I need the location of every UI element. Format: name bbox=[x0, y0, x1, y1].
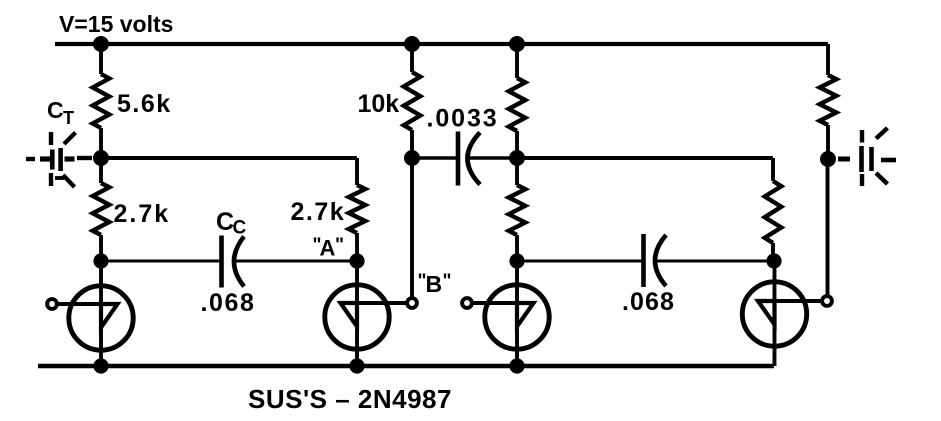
wire mid-right horizontal bbox=[517, 156, 773, 160]
wire C068b to node anode SUS4 bbox=[657, 260, 774, 263]
resistor R1 5.6k bbox=[93, 74, 110, 128]
wire node to R6 bbox=[515, 158, 519, 185]
svg-text:V=15 volts: V=15 volts bbox=[59, 11, 173, 37]
wire top rail corner down to R8 bbox=[826, 44, 830, 75]
wire R6 to anode SUS3 bbox=[515, 235, 519, 261]
svg-text:SUS'S – 2N4987: SUS'S – 2N4987 bbox=[248, 384, 452, 414]
svg-text:C: C bbox=[233, 218, 247, 239]
resistor R8 bbox=[820, 75, 837, 125]
resistor R5 bbox=[509, 78, 526, 131]
wire CC to node A bbox=[236, 260, 357, 263]
wire V+ to R5 bbox=[515, 44, 519, 78]
svg-text:C: C bbox=[216, 208, 234, 236]
wire C0033 to node R5 bbox=[469, 156, 517, 159]
resistor R6 bbox=[509, 185, 526, 235]
SUS U1 2N4987 bbox=[99, 261, 103, 366]
wire bottom ground rail bbox=[38, 364, 774, 369]
node B top bbox=[404, 150, 420, 166]
SUS U3 2N4987 bbox=[515, 261, 519, 366]
resistor R3 2.7k bbox=[349, 185, 366, 233]
capacitor CT (dashed, external) bbox=[26, 157, 35, 161]
node CT junction bbox=[93, 150, 109, 166]
resistor R2 2.7k bbox=[93, 183, 110, 235]
svg-text:B: B bbox=[426, 271, 443, 297]
node ground SUS1 bbox=[93, 358, 108, 373]
node mid right bbox=[509, 150, 525, 166]
node top rail at R4 bbox=[404, 36, 420, 52]
node anode SUS1 bbox=[93, 253, 108, 268]
capacitor C4 .068 bbox=[641, 234, 646, 287]
wire corner down to R3 bbox=[355, 158, 359, 185]
node top rail at R5 bbox=[509, 36, 525, 52]
wire R1 to node CT bbox=[99, 128, 103, 158]
resistor R4 10k bbox=[404, 72, 421, 130]
wire V+ to R4 bbox=[410, 44, 414, 72]
svg-text:T: T bbox=[63, 108, 74, 128]
svg-text:C: C bbox=[47, 97, 64, 123]
svg-text:2.7k: 2.7k bbox=[114, 200, 171, 228]
capacitor C3 .0033 bbox=[456, 132, 461, 186]
svg-text:.068: .068 bbox=[201, 289, 256, 317]
wire V+ to R1 bbox=[99, 44, 103, 74]
node anode SUS3 bbox=[509, 253, 524, 268]
wire corner down to R7 bbox=[771, 158, 775, 181]
wire R2 to anode node of SUS1 bbox=[99, 235, 103, 261]
capacitor CC .068 bbox=[219, 236, 224, 288]
wire node Btop to C0033 bbox=[412, 156, 457, 159]
node right cap junction bbox=[820, 151, 836, 167]
wire node right down to gate SUS4 bbox=[826, 159, 830, 295]
wire node B drop to gate of SUS2 bbox=[410, 158, 414, 297]
node V+ at R1 bbox=[93, 36, 109, 52]
node anode SUS4 bbox=[766, 253, 781, 268]
wire top supply rail bbox=[55, 42, 828, 46]
svg-text:2.7k: 2.7k bbox=[291, 198, 346, 226]
wire node SUS3 to C068b bbox=[517, 260, 642, 263]
capacitor right (dashed, external) bbox=[838, 157, 850, 162]
resistor R7 bbox=[765, 181, 782, 243]
svg-text:": " bbox=[335, 235, 344, 256]
node A bbox=[349, 253, 364, 268]
wire node A1 to CC bbox=[101, 260, 220, 263]
wire R5 to node bbox=[515, 131, 519, 158]
wire node CT to R2 bbox=[99, 158, 103, 183]
SUS U2 2N4987 bbox=[355, 261, 359, 366]
svg-text:.0033: .0033 bbox=[427, 105, 499, 133]
wire R3 to node A bbox=[355, 233, 359, 261]
svg-text:10k: 10k bbox=[358, 90, 400, 118]
wire R7 to node anode SUS4 bbox=[771, 243, 775, 261]
wire node CT to node A line bbox=[101, 156, 357, 160]
svg-text:": " bbox=[443, 271, 452, 292]
wire R8 to node right bbox=[826, 125, 830, 159]
svg-text:A: A bbox=[320, 236, 336, 261]
SUS U4 2N4987 bbox=[773, 261, 777, 366]
node ground SUS3 bbox=[509, 358, 524, 373]
wire R4 to node B top bbox=[410, 130, 414, 158]
svg-text:.068: .068 bbox=[622, 288, 675, 316]
svg-text:5.6k: 5.6k bbox=[117, 90, 172, 118]
node ground SUS2 bbox=[349, 358, 364, 373]
